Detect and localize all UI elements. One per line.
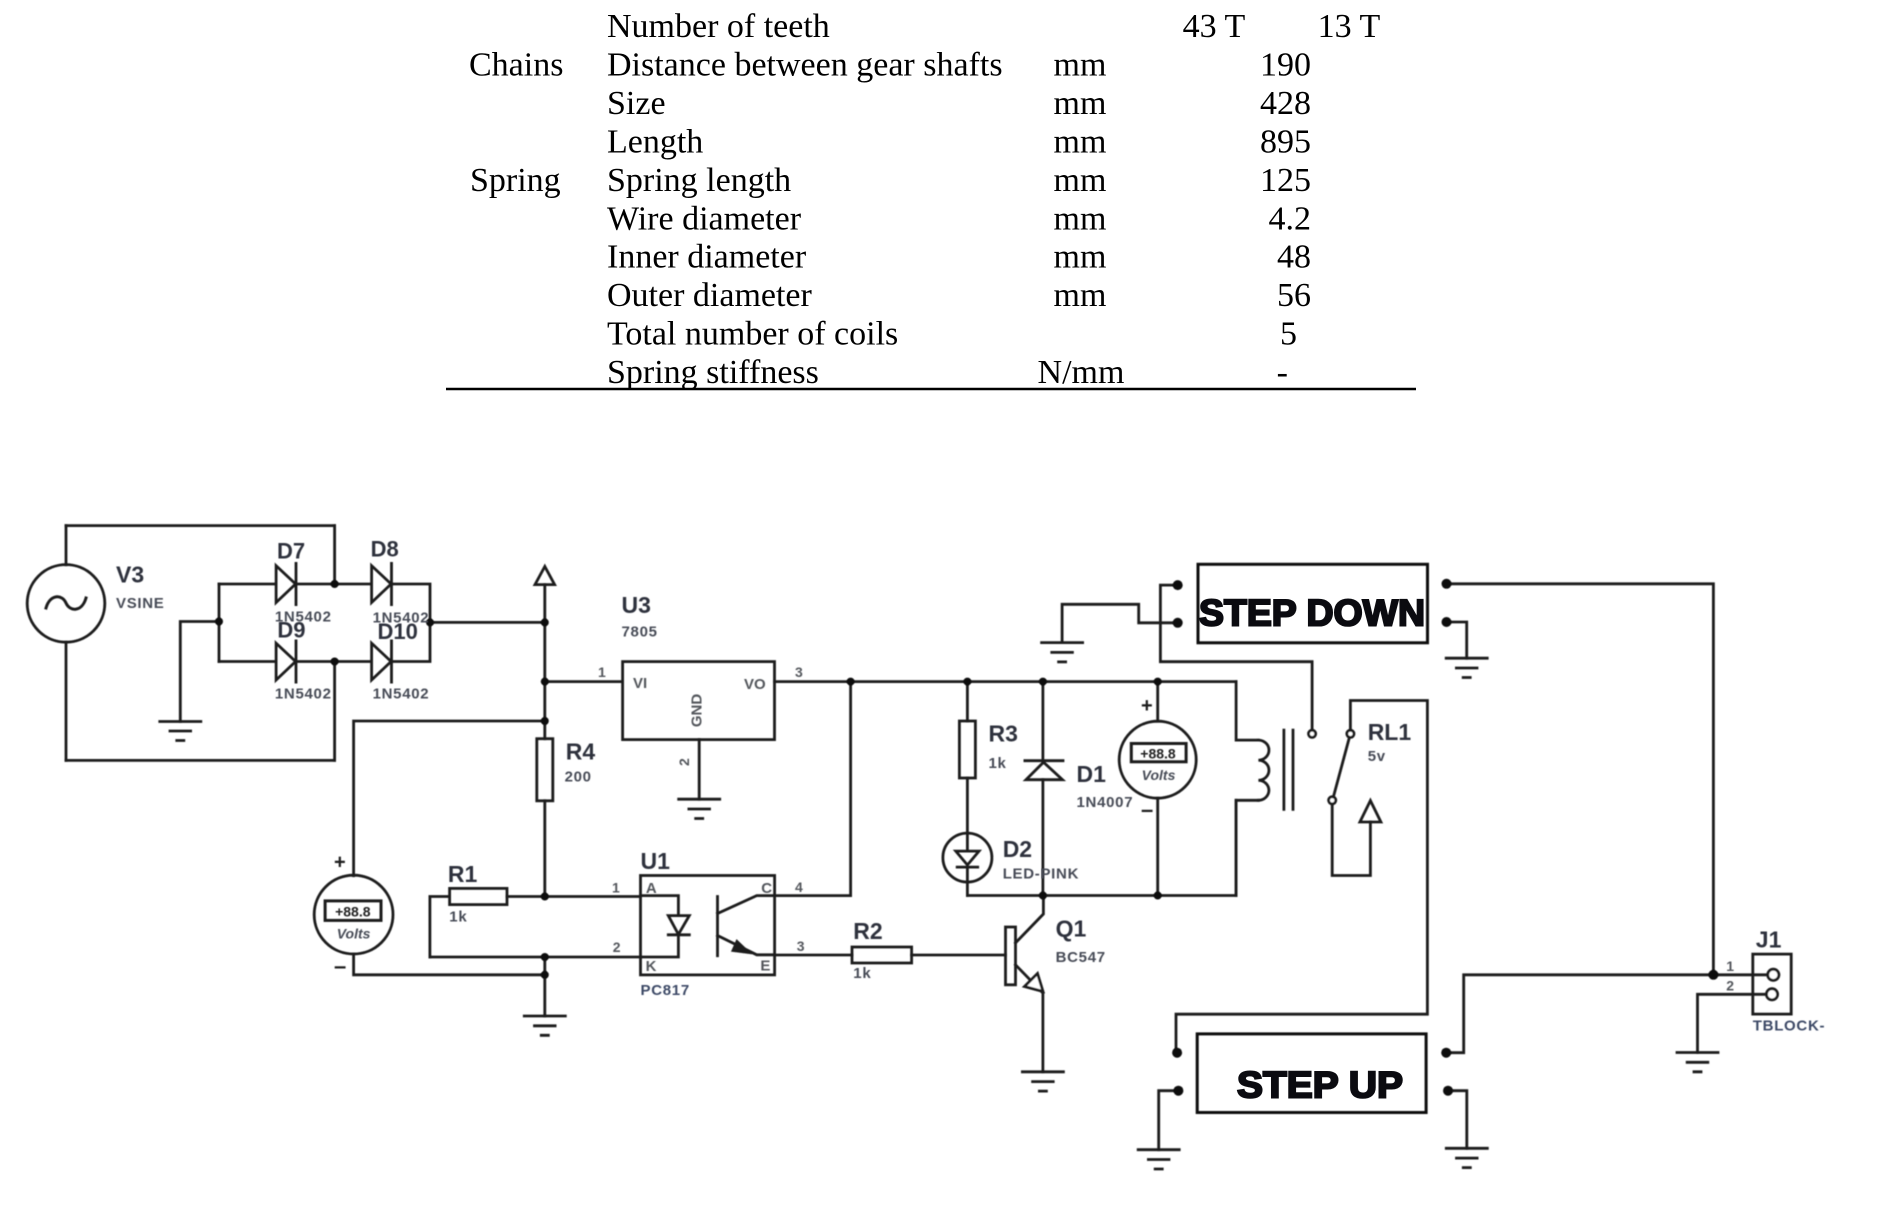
relay contact C [1347,730,1354,737]
wire STEP UP right pin1 [1446,975,1768,1053]
svg-text:J1: J1 [1756,927,1782,953]
svg-text:VSINE: VSINE [116,595,165,612]
svg-text:STEP DOWN: STEP DOWN [1199,593,1425,634]
svg-text:56: 56 [1277,277,1311,314]
svg-text:4.2: 4.2 [1269,200,1312,237]
STEP UP box [1197,1034,1426,1113]
wire STEP DOWN right pin1 long [1447,584,1714,975]
svg-text:2: 2 [613,939,621,955]
svg-text:K: K [646,958,657,975]
svg-text:PC817: PC817 [641,982,690,999]
svg-text:+88.8: +88.8 [1140,746,1176,762]
wire rectified node to power column [430,621,545,624]
svg-text:Volts: Volts [337,926,371,942]
wire V3 box bottom [66,759,335,762]
svg-text:U3: U3 [622,592,651,618]
svg-text:D8: D8 [371,537,399,562]
wire ground column [543,957,546,1016]
wire power column vertical [543,585,546,739]
transistor Q1 [1006,927,1016,985]
svg-text:–: – [334,954,346,979]
svg-text:+88.8: +88.8 [335,904,371,920]
wire V3 box right upper [333,526,336,584]
node pin2 tap [541,953,549,961]
relay NO arrow [1360,801,1381,822]
svg-text:Chains: Chains [469,47,563,84]
svg-text:Size: Size [607,85,666,122]
wire voltmeter plus branch [354,721,545,876]
svg-text:E: E [760,957,770,974]
svg-text:D2: D2 [1003,836,1032,862]
svg-text:Total number of coils: Total number of coils [607,316,898,353]
svg-text:mm: mm [1054,162,1107,199]
node VO rail VM2 [1154,678,1162,686]
wire U1 pin3 to R2 [775,954,852,957]
pin dot STEP DOWN left1 [1173,580,1183,590]
wire relay NO to tall route [1176,701,1427,1049]
svg-text:Inner diameter: Inner diameter [607,239,807,276]
wire to left ground [180,622,219,722]
resistor R1 [450,888,507,904]
svg-text:R3: R3 [989,721,1018,747]
svg-text:3: 3 [795,664,803,680]
svg-text:+: + [334,852,346,874]
ground STEP DOWN right [1446,658,1487,677]
wire R3 top [966,682,969,721]
node power column top [541,618,549,626]
svg-text:Spring stiffness: Spring stiffness [607,354,819,391]
svg-text:1k: 1k [989,755,1007,772]
wire D9 cathode to D10 anode [296,660,372,663]
wire R4 bottom [543,801,546,897]
svg-text:mm: mm [1054,277,1107,314]
svg-text:190: 190 [1260,47,1311,84]
wire bottom rail [967,800,1236,895]
svg-text:1: 1 [598,664,606,680]
opto-isolator U1 box [641,876,775,975]
node voltmeter plus tap [541,717,549,725]
wire voltmeter2 bottom [1156,798,1159,895]
ground STEP UP left [1138,1150,1179,1169]
svg-text:3: 3 [797,938,805,954]
svg-text:D7: D7 [277,538,305,563]
svg-text:mm: mm [1054,239,1107,276]
source V3 [27,565,105,643]
wire V3 top stub [65,526,68,565]
U1 emitter arrow [733,942,749,953]
wire D1 bottom [1042,780,1045,896]
node VO rail D1 [1039,678,1047,686]
wire V3 bottom stub [65,642,68,760]
diode D10 [372,641,392,682]
wire U1 pin4 to rail [775,682,851,896]
U1 internal led [641,896,690,957]
node mid junction [215,618,223,626]
connector J1 box [1753,954,1791,1014]
svg-text:R1: R1 [448,861,478,887]
regulator U3 box [623,662,775,740]
relay coil RL1 [1236,682,1258,896]
wire relay pole to arrow [1332,804,1370,876]
relay contact A [1309,730,1316,737]
svg-text:125: 125 [1260,162,1311,199]
svg-text:2: 2 [1726,977,1734,993]
svg-text:Wire diameter: Wire diameter [607,200,802,237]
pin dot STEP DOWN right2 [1442,617,1452,627]
wire voltmeter2 top [1156,682,1159,722]
J1 pin1 circle [1768,969,1779,980]
svg-text:Length: Length [607,123,703,160]
svg-text:mm: mm [1054,123,1107,160]
wire U3 gnd stem [698,740,701,800]
svg-text:STEP UP: STEP UP [1237,1065,1403,1106]
svg-text:7805: 7805 [622,624,658,641]
ground near V3 [160,722,201,741]
STEP DOWN box [1198,564,1428,643]
svg-text:43 T: 43 T [1183,8,1246,45]
relay pole B [1329,797,1336,804]
pin dot STEP UP left1 [1172,1048,1182,1058]
resistor R3 [959,721,975,778]
diode D9 [276,641,296,682]
ground STEP DOWN left [1042,643,1083,662]
svg-text:Distance between gear shafts: Distance between gear shafts [607,47,1003,84]
svg-text:N/mm: N/mm [1038,354,1125,391]
wire R3 to D2 [966,778,969,833]
node rectifier output [426,618,434,626]
pin dot STEP DOWN right1 [1442,579,1452,589]
voltmeter VM1 [314,875,393,954]
svg-text:4: 4 [795,879,803,895]
wire STEP DOWN right pin2 to ground [1447,622,1467,658]
svg-text:R2: R2 [853,918,882,944]
svg-text:13 T: 13 T [1318,8,1381,45]
U1 internal phototransistor [718,896,775,956]
pin dot STEP UP left2 [1173,1086,1183,1096]
ground below R1 [524,1016,565,1035]
wire D7 anode [219,583,276,586]
wire D1 top [1042,682,1045,761]
svg-text:Spring: Spring [470,162,561,199]
svg-text:5v: 5v [1368,748,1386,765]
node bottom rail VM2 [1154,892,1162,900]
svg-text:TBLOCK-: TBLOCK- [1753,1018,1825,1035]
voltmeter VM2 [1119,721,1196,798]
svg-text:D10: D10 [378,619,418,644]
svg-text:1: 1 [1726,958,1734,974]
svg-text:GND: GND [689,694,706,728]
wire mid junction vertical [218,584,221,662]
node U3 pin1 [541,678,549,686]
svg-text:U1: U1 [641,848,671,874]
svg-text:1N4007: 1N4007 [1077,794,1134,811]
svg-text:+: + [1141,695,1153,717]
wire U3 pin1 [545,680,623,683]
pin dot STEP UP right2 [1443,1086,1453,1096]
wire D2 to bottom rail [966,882,969,895]
node VO rail R3 [963,678,971,686]
ground below U3 [679,799,720,818]
wire D8 cathode down [392,584,431,622]
wire STEP DOWN left pin2 to ground [1062,604,1178,642]
diode D1 [1025,761,1063,780]
svg-text:1N5402: 1N5402 [275,685,332,702]
svg-text:2: 2 [676,758,692,766]
wire VO rail [775,680,1237,683]
diode D8 [372,563,392,604]
power arrow symbol [535,567,555,585]
node D9 cathode junction [331,658,339,666]
svg-text:D1: D1 [1077,761,1107,787]
svg-text:RL1: RL1 [1368,719,1412,745]
wire R2 to Q1 base [912,954,1006,957]
svg-text:Volts: Volts [1142,767,1176,783]
svg-text:-: - [1277,354,1288,391]
node D7 cathode junction [331,580,339,588]
resistor R4 [537,739,553,801]
wire voltmeter minus [354,954,545,975]
wire D7 cathode to D8 anode [296,583,372,586]
relay blade [1333,737,1349,797]
node bottom rail Q1 [1039,892,1047,900]
wire R1 left elbow [430,897,450,958]
ground STEP UP right [1446,1148,1487,1167]
svg-text:mm: mm [1054,47,1107,84]
Q1 emitter arrow [1025,974,1044,992]
svg-text:V3: V3 [116,562,144,588]
svg-text:Q1: Q1 [1056,916,1087,942]
wire STEP DOWN left pin1 [1160,585,1312,730]
svg-text:1k: 1k [853,965,871,982]
svg-text:VO: VO [744,676,766,693]
node voltmeter minus tap [541,971,549,979]
wire R1 right / U1 pin1 [507,895,641,898]
relay core bars [1284,730,1293,809]
wire STEP UP left pin2 to ground [1159,1091,1179,1150]
pin dot STEP UP right1 [1441,1048,1451,1058]
svg-text:Spring length: Spring length [607,162,791,199]
svg-text:48: 48 [1277,239,1311,276]
svg-text:428: 428 [1260,85,1311,122]
svg-text:VI: VI [633,675,647,692]
svg-text:5: 5 [1280,316,1297,353]
svg-text:mm: mm [1054,200,1107,237]
ground J1 [1677,1053,1718,1072]
svg-text:Outer diameter: Outer diameter [607,277,813,314]
svg-text:A: A [646,880,657,897]
diode D7 [276,563,296,604]
svg-text:mm: mm [1054,85,1107,122]
node VO rail U1 [847,678,855,686]
wire U1 pin2 [430,956,641,959]
resistor R2 [852,947,912,963]
J1 pin2 circle [1766,989,1777,1000]
svg-text:R4: R4 [566,739,596,765]
svg-text:1: 1 [612,879,620,895]
svg-text:BC547: BC547 [1056,949,1106,966]
node R1 right [541,893,549,901]
wire J1 pin2 to ground [1698,994,1767,1052]
svg-text:1N5402: 1N5402 [373,685,430,702]
ground below Q1 [1022,1072,1063,1091]
svg-text:D9: D9 [277,618,305,643]
wire V3 box top [66,524,335,527]
svg-text:895: 895 [1260,123,1311,160]
wire STEP UP right pin2 to ground [1448,1091,1467,1149]
svg-text:LED-PINK: LED-PINK [1003,866,1079,883]
svg-text:Number of teeth: Number of teeth [607,8,830,45]
wire D9 anode [219,660,276,663]
svg-text:–: – [1141,797,1153,822]
pin dot STEP DOWN left2 [1173,618,1183,628]
node J1 pin1 junction [1708,970,1718,980]
wire V3 box right lower [333,662,336,761]
svg-text:200: 200 [565,769,592,786]
svg-text:C: C [761,880,772,897]
wire D10 cathode up [392,622,431,661]
led D2 [943,833,992,882]
svg-text:1k: 1k [449,909,467,926]
table bottom rule [446,388,1416,391]
